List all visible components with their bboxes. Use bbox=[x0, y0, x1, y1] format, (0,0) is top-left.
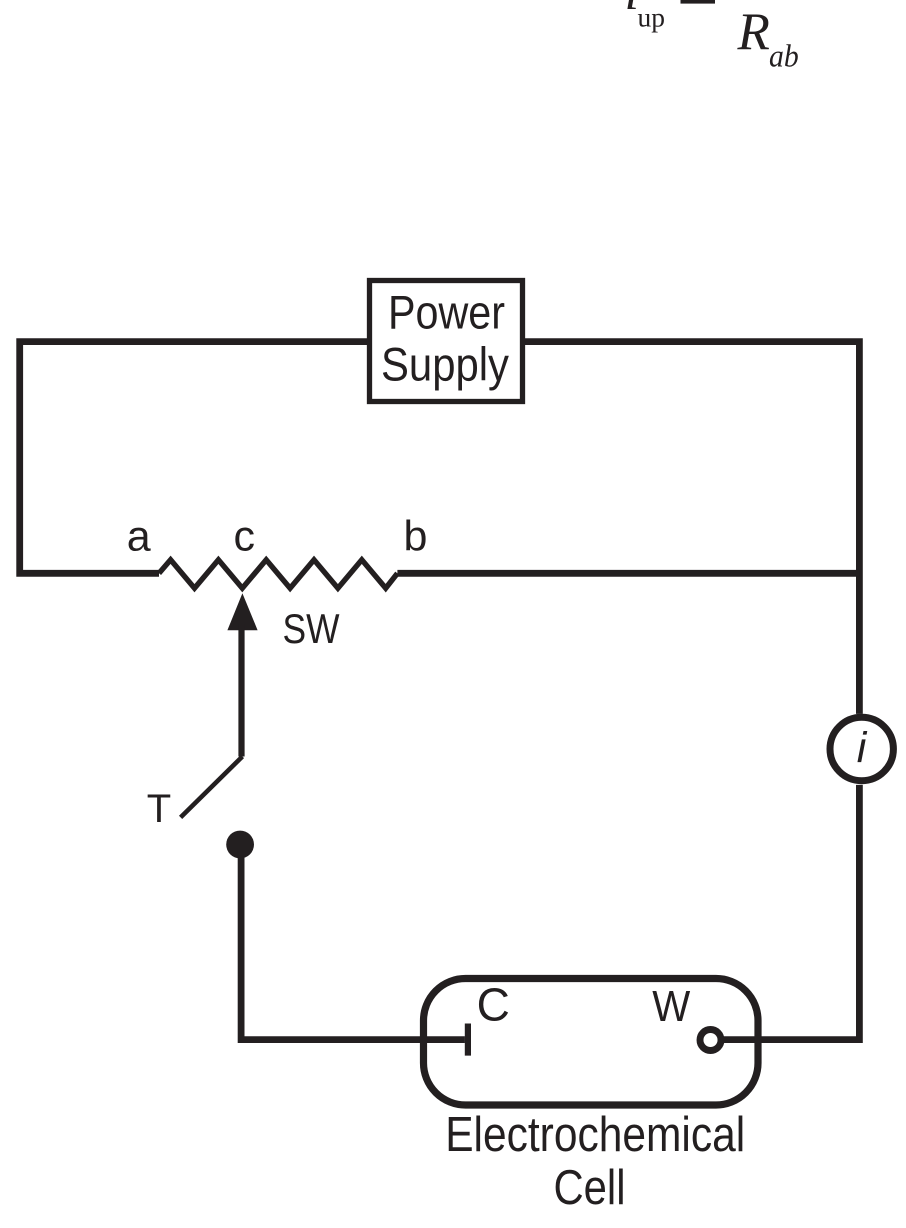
electrochemical cell body (rounded rect) bbox=[424, 979, 759, 1106]
svg-text:W: W bbox=[652, 982, 690, 1031]
svg-text:SW: SW bbox=[283, 605, 340, 652]
switch contact dot bbox=[226, 831, 254, 859]
svg-text:Supply: Supply bbox=[381, 339, 509, 392]
svg-text:up: up bbox=[638, 1, 666, 32]
electrochemical cell caption bbox=[445, 1108, 745, 1215]
wiper shaft wire bbox=[238, 624, 244, 757]
wire: top-right run + right vertical down to ammeter bbox=[523, 342, 860, 714]
power supply box bbox=[370, 281, 523, 402]
wire: top-left run + left vertical + resistor left lead bbox=[20, 342, 369, 574]
svg-text:b: b bbox=[404, 513, 428, 561]
svg-text:c: c bbox=[233, 513, 255, 561]
svg-text:ab: ab bbox=[769, 37, 799, 73]
power supply label bbox=[381, 287, 509, 392]
wiper arrowhead bbox=[227, 593, 257, 630]
ammeter U1 circle bbox=[830, 717, 893, 780]
svg-text:a: a bbox=[127, 513, 151, 561]
svg-text:Cell: Cell bbox=[554, 1161, 626, 1215]
svg-text:R: R bbox=[737, 3, 770, 61]
svg-text:C: C bbox=[477, 978, 510, 1030]
wire: right vertical below ammeter down to cell row bbox=[723, 785, 859, 1040]
electrode W terminal circle bbox=[700, 1030, 721, 1051]
svg-text:Power: Power bbox=[388, 287, 505, 340]
wire: from switch dot down and right to cell C electrode bbox=[241, 851, 465, 1040]
wire: resistor right lead to right vertical bbox=[397, 570, 859, 577]
switch T blade (open) bbox=[181, 757, 243, 818]
svg-text:i: i bbox=[857, 724, 868, 772]
svg-text:T: T bbox=[147, 787, 171, 831]
formula fragment i_up bbox=[625, 0, 666, 32]
electrode C bar bbox=[465, 1024, 471, 1056]
formula equals sign (bottom bar, cut off) bbox=[681, 0, 716, 4]
svg-text:Electrochemical: Electrochemical bbox=[445, 1108, 745, 1162]
formula R_ab denominator bbox=[737, 3, 799, 73]
resistor SW (potentiometer a-c-b) zigzag bbox=[159, 560, 397, 588]
